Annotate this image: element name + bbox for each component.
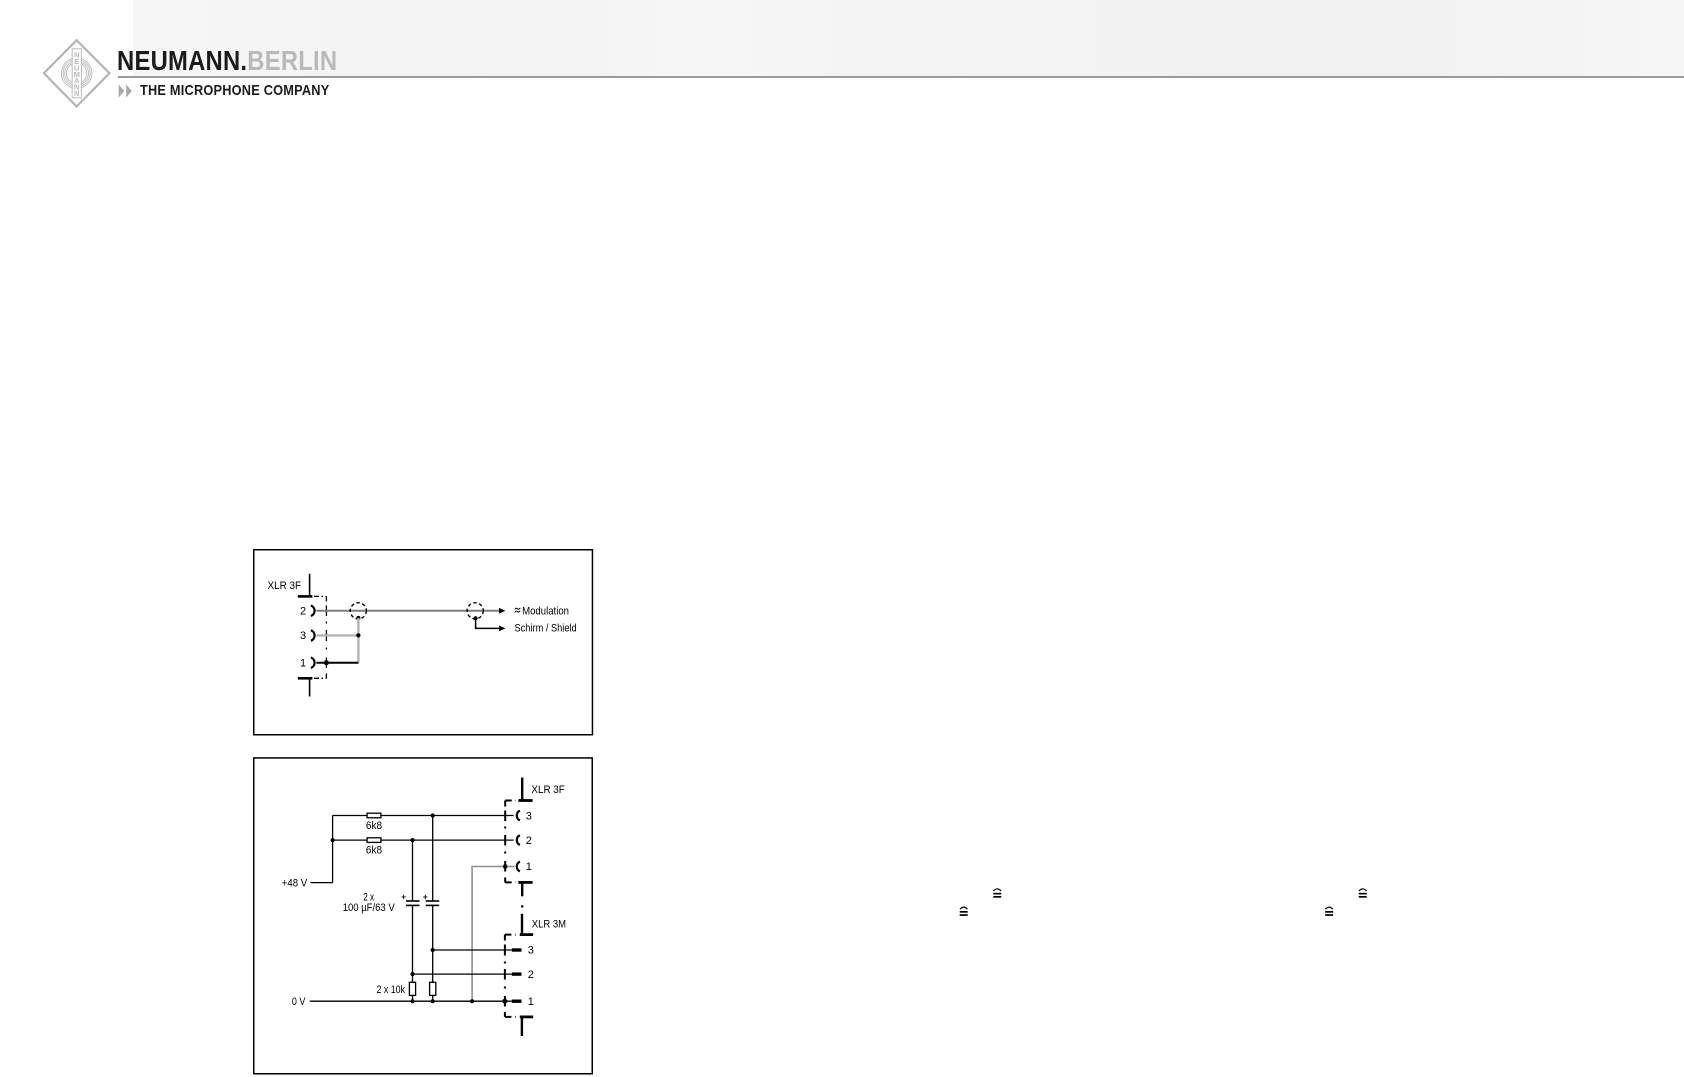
- connector shell top stub: [309, 574, 311, 597]
- resistor 6k8 (top): [367, 813, 381, 818]
- svg-text:N: N: [74, 89, 79, 98]
- junction pin3/right cap line: [431, 813, 435, 817]
- pin 1 wire: [316, 662, 358, 664]
- header gray band: [133, 0, 1684, 76]
- symbol at (1325,906): [1325, 907, 1333, 916]
- XLR3M pin 3 bar: [512, 948, 522, 951]
- junction 0V/left: [410, 999, 414, 1003]
- XLR3M pin 1 bar: [512, 1000, 522, 1003]
- symbol at (993,888): [993, 889, 1001, 898]
- XLR3M boundary dash-dot: [504, 935, 506, 1017]
- junction 0V/shell XLR3M: [502, 999, 507, 1004]
- svg-text:3: 3: [528, 945, 534, 957]
- junction pin3/vertical: [356, 633, 360, 637]
- junction 0V/gray: [470, 999, 474, 1003]
- shell dash-dot bottom: [314, 677, 326, 679]
- svg-text:Schirm / Shield: Schirm / Shield: [515, 622, 577, 634]
- XLR3M bottom stub: [521, 1017, 523, 1036]
- svg-text:2: 2: [526, 835, 532, 847]
- XLR3M pin 2 bar: [512, 972, 522, 975]
- shell dash-dot top: [314, 595, 326, 597]
- svg-text:Modulation: Modulation: [522, 606, 569, 618]
- svg-text:1: 1: [300, 657, 306, 669]
- NEUMANN.BERLIN wordmark: [117, 45, 337, 77]
- XLR3F boundary dash-dot: [504, 801, 506, 883]
- left cap wire lower: [412, 905, 414, 982]
- capacitor C2 plates: [426, 900, 440, 902]
- four estimated-sign symbols: [955, 885, 1005, 920]
- XLR3F shell bottom bar: [518, 881, 532, 884]
- XLR3M shell dash-dot bottom: [505, 1016, 516, 1018]
- XLR3M shell top bar: [520, 933, 533, 936]
- resistor 6k8 (bottom): [367, 838, 381, 843]
- header rule: [118, 76, 1684, 78]
- svg-text:0 V: 0 V: [292, 996, 306, 1008]
- svg-text:2 x 10k: 2 x 10k: [377, 984, 406, 996]
- capacitor C1 plates: [406, 900, 420, 902]
- svg-text:+48 V: +48 V: [282, 877, 308, 889]
- svg-text:100 µF/63 V: 100 µF/63 V: [343, 902, 396, 914]
- +48V stub: [311, 882, 333, 884]
- approx sign: [515, 608, 520, 612]
- junction pin2M/left line: [410, 972, 414, 976]
- left cap wire upper: [412, 840, 414, 901]
- shield wire: [476, 618, 500, 628]
- right wire below resistor: [432, 995, 434, 1001]
- junction 0V/right: [431, 999, 435, 1003]
- pin 1 wire (gray, to 0V): [472, 867, 505, 1002]
- double triangles: [118, 84, 134, 99]
- pin 2 socket arc: [311, 606, 315, 616]
- shell bottom stub: [309, 678, 311, 696]
- Neumann diamond logo: [43, 39, 111, 108]
- symbol at (1359,888): [1359, 889, 1367, 898]
- svg-text:XLR 3F: XLR 3F: [531, 784, 565, 796]
- pin 3 wire: [333, 815, 514, 817]
- transformer circle 2 (dashed): [467, 603, 483, 619]
- svg-text:6k8: 6k8: [366, 844, 382, 856]
- left wire below resistor: [412, 995, 414, 1001]
- pin 3 wire: [316, 634, 358, 636]
- pin 3 socket arc: [517, 811, 520, 821]
- junction pin3M/right line: [431, 948, 435, 952]
- modulation arrowhead: [499, 608, 505, 614]
- resistor 10k left: [409, 982, 415, 995]
- pin 2 socket arc: [517, 835, 520, 845]
- pin 1 socket arc: [517, 862, 520, 872]
- junction pin2/left cap line: [410, 838, 414, 842]
- junction pin1/shell: [324, 660, 329, 665]
- shell top bar: [298, 595, 313, 598]
- junction under circle 2: [474, 616, 478, 620]
- svg-text:XLR 3F: XLR 3F: [268, 580, 302, 592]
- svg-text:6k8: 6k8: [366, 820, 382, 832]
- XLR 3F shell top stub: [521, 778, 523, 801]
- XLR3F shell dash-dot bottom: [505, 881, 516, 883]
- pin 2 wire: [333, 839, 514, 841]
- svg-text:1: 1: [526, 861, 532, 873]
- box border: [254, 758, 593, 1074]
- XLR3M shell dash-dot top: [505, 934, 516, 936]
- symbol at (960,906): [960, 907, 968, 916]
- XLR3F shell bottom stub: [521, 882, 523, 896]
- pin 2 wire (modulation): [316, 610, 499, 612]
- svg-text:2: 2: [528, 969, 534, 981]
- XLR3F shell dash-dot top: [505, 800, 516, 802]
- pin 3 socket arc: [311, 630, 315, 640]
- tail between connectors: dot: [521, 905, 523, 907]
- wire circle1 to pin1 line: [357, 618, 359, 663]
- XLR3M shell bottom bar: [520, 1016, 533, 1019]
- shell bottom bar: [298, 677, 313, 680]
- XLR3M pin 3 wire: [433, 949, 512, 951]
- XLR3M top stub: [521, 914, 523, 935]
- svg-text:3: 3: [300, 630, 306, 642]
- 0V wire: [310, 1000, 512, 1002]
- box border: [254, 550, 593, 735]
- pin 1 socket arc: [311, 658, 315, 668]
- svg-text:2: 2: [300, 606, 306, 618]
- svg-text:3: 3: [526, 810, 532, 822]
- transformer circle 1 (dashed): [350, 603, 366, 619]
- junction pin1/shell: [503, 864, 508, 869]
- connector boundary dash-dot: [325, 596, 327, 678]
- right cap wire lower: [432, 905, 434, 982]
- shield arrowhead: [499, 626, 505, 632]
- XLR3M pin 2 wire: [413, 973, 512, 975]
- svg-text:XLR 3M: XLR 3M: [532, 919, 566, 931]
- junction under circle 1: [356, 616, 360, 620]
- junction pin2/+48 line: [331, 838, 335, 842]
- resistor 10k right: [430, 982, 436, 995]
- right cap wire upper: [432, 816, 434, 902]
- pin1 wire short (gray to arc): [505, 866, 514, 868]
- XLR3F shell top bar: [518, 799, 532, 802]
- THE MICROPHONE COMPANY: [140, 83, 329, 99]
- C1 plus sign: [402, 895, 406, 899]
- svg-text:1: 1: [528, 996, 534, 1008]
- +48V vertical wire: [332, 816, 334, 883]
- C2 plus sign: [423, 895, 427, 899]
